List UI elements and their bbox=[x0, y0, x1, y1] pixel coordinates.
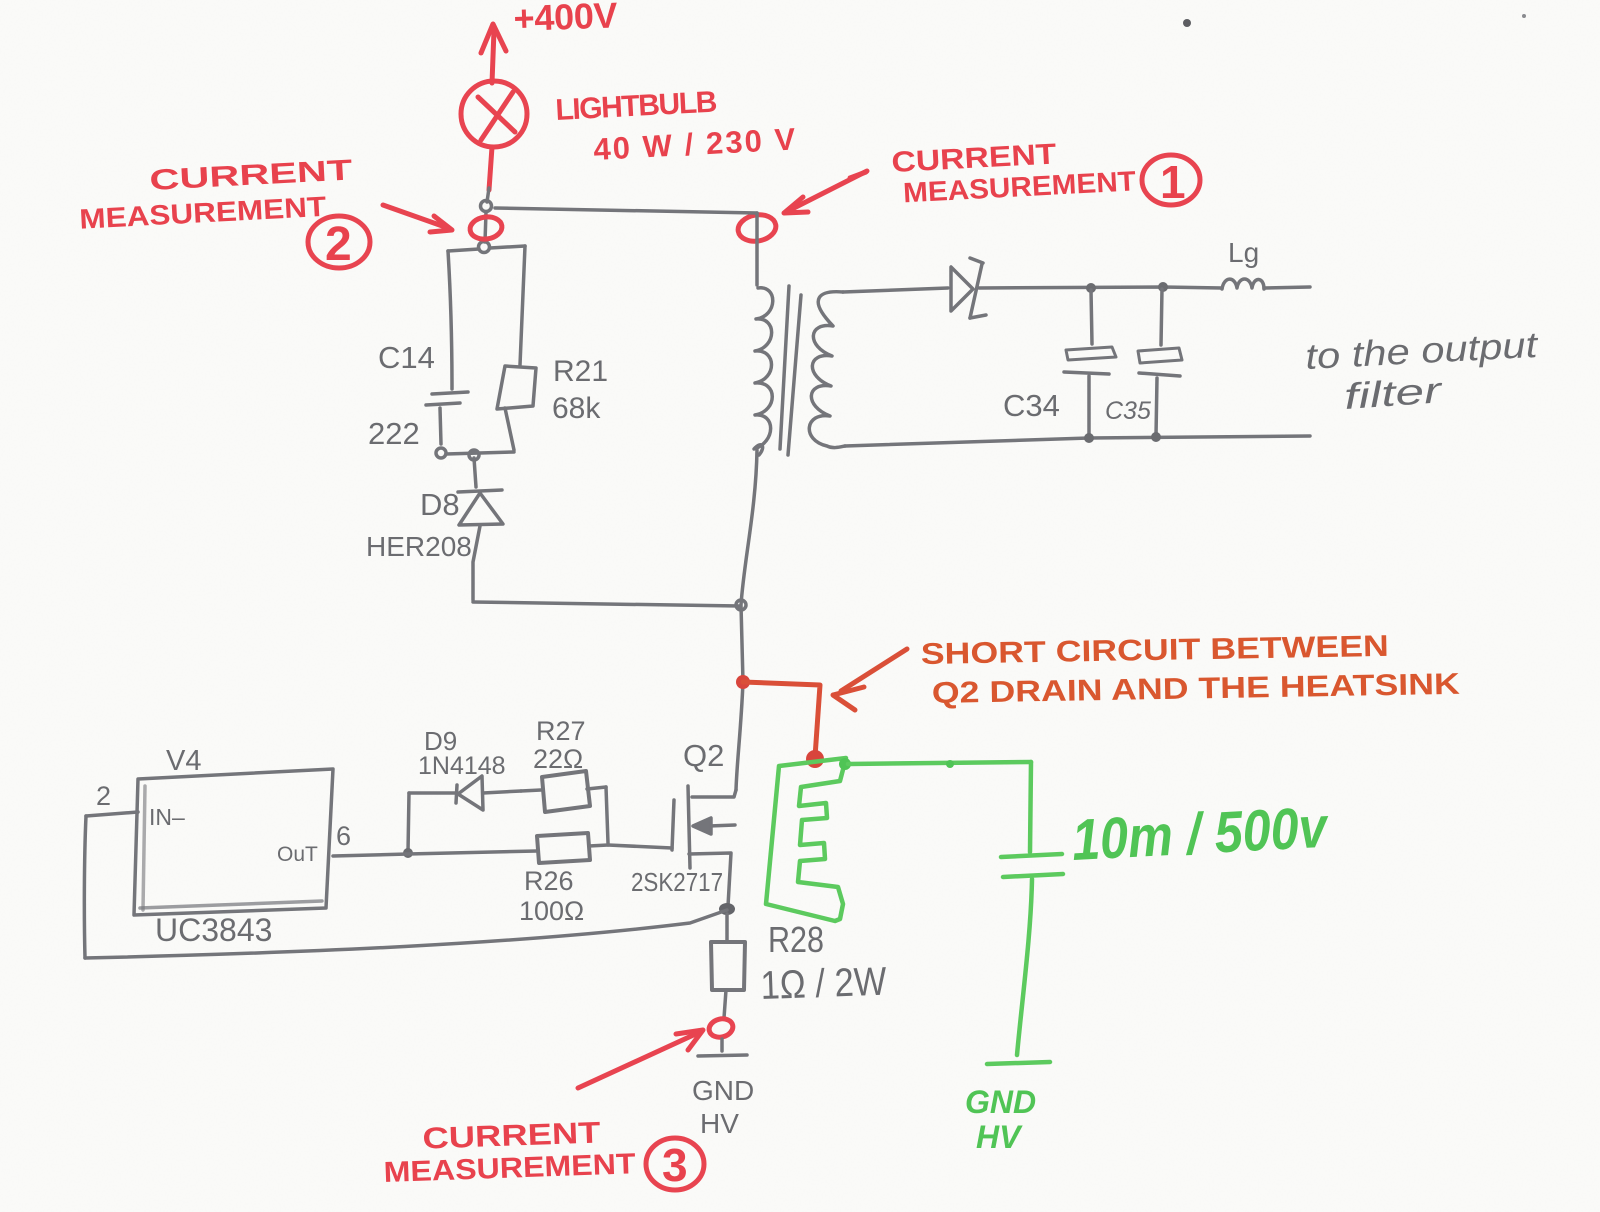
wire D8 to drain node bbox=[473, 602, 740, 606]
wire snubber bottom bbox=[446, 452, 514, 454]
svg-text:GND: GND bbox=[692, 1075, 754, 1106]
node snubber bottom-left circle bbox=[436, 448, 446, 458]
svg-text:6: 6 bbox=[336, 821, 351, 851]
node pencil circle upper bbox=[481, 201, 492, 212]
wire pin6 out bbox=[333, 851, 537, 856]
arrow to measurement point 2 bbox=[383, 205, 452, 232]
node pencil circle lower bbox=[479, 242, 490, 253]
wire bulb to node bbox=[487, 188, 489, 202]
svg-text:2: 2 bbox=[96, 781, 111, 811]
svg-text:1N4148: 1N4148 bbox=[418, 752, 506, 780]
resistor R21 bbox=[497, 246, 536, 450]
node C35 bottom junction bbox=[1151, 432, 1161, 442]
svg-text:D8: D8 bbox=[420, 487, 460, 522]
diode D8 bbox=[458, 458, 503, 600]
wire primary bottom to drain bbox=[736, 450, 757, 790]
svg-text:HV: HV bbox=[700, 1108, 739, 1139]
label to the output filter bbox=[1304, 324, 1540, 417]
node heatsink wire dot bbox=[839, 758, 851, 770]
wire short circuit link bbox=[743, 682, 820, 757]
node +400V supply arrow bbox=[481, 24, 506, 83]
wire bulb stem red bbox=[489, 147, 492, 190]
wire diode to L9 bbox=[979, 287, 1222, 288]
node source junction dot bbox=[719, 903, 735, 915]
node short-circuit dot on heatsink bbox=[806, 750, 824, 768]
capacitor 10m/500V bbox=[1001, 854, 1063, 877]
label current measurement 2 bbox=[77, 154, 355, 234]
svg-text:222: 222 bbox=[368, 416, 420, 451]
probe current measurement point 3 (red circle) bbox=[707, 1016, 735, 1039]
arrow to measurement point 3 bbox=[578, 1030, 703, 1088]
node drain junction circle bbox=[736, 600, 746, 610]
wire down to capacitor bbox=[1030, 762, 1031, 852]
svg-text:Lg: Lg bbox=[1228, 237, 1259, 268]
lamp lightbulb symbol bbox=[461, 81, 527, 147]
diode output rectifier bbox=[951, 258, 986, 318]
capacitor C14 bbox=[426, 251, 468, 444]
resistor R26 bbox=[537, 833, 590, 863]
wire feedback bottom bbox=[85, 910, 727, 958]
wire capacitor to ground bbox=[1017, 879, 1032, 1055]
wire segment between circles bbox=[485, 212, 486, 242]
svg-text:C35: C35 bbox=[1105, 397, 1151, 425]
ground green GND HV bbox=[987, 1062, 1050, 1064]
speck mark top right bbox=[1183, 19, 1191, 27]
svg-text:C14: C14 bbox=[378, 340, 435, 375]
probe current measurement point 1 (red ellipse) bbox=[736, 212, 778, 244]
node green wire dot bbox=[946, 760, 954, 768]
svg-text:2SK2717: 2SK2717 bbox=[631, 867, 723, 897]
node short-circuit dot on drain bbox=[736, 675, 750, 689]
node pin6 junction dot bbox=[403, 848, 413, 858]
ground GND HV bbox=[698, 1055, 747, 1056]
badge circled 1 bbox=[1142, 155, 1200, 208]
transformer primary winding bbox=[754, 288, 773, 455]
inductor L9 bbox=[1222, 279, 1264, 289]
wire left down bbox=[84, 816, 86, 958]
resistor R27 bbox=[521, 771, 606, 812]
svg-text:IN–: IN– bbox=[149, 804, 185, 830]
resistor R28 bbox=[711, 914, 745, 1018]
svg-text:HER208: HER208 bbox=[366, 531, 472, 562]
transistor Q2 mosfet bbox=[672, 786, 736, 906]
svg-text:R26: R26 bbox=[524, 866, 574, 896]
arrow to measurement point 1 bbox=[784, 171, 867, 213]
svg-text:C34: C34 bbox=[1003, 388, 1060, 423]
svg-text:3: 3 bbox=[662, 1139, 688, 1191]
wire gate bbox=[608, 845, 672, 848]
svg-text:GND: GND bbox=[965, 1084, 1036, 1120]
transformer core bbox=[780, 286, 801, 455]
svg-text:100Ω: 100Ω bbox=[519, 896, 584, 926]
svg-text:2: 2 bbox=[325, 218, 352, 271]
svg-text:1Ω / 2W: 1Ω / 2W bbox=[760, 960, 888, 1008]
badge circled 2 bbox=[308, 216, 370, 271]
wire L9 to right bbox=[1264, 287, 1310, 288]
wire secondary bottom bbox=[845, 436, 1310, 446]
wire secondary top bbox=[843, 288, 948, 292]
svg-text:Q2: Q2 bbox=[683, 738, 724, 773]
wire D9 branch down bbox=[408, 793, 409, 852]
diode D9 bbox=[409, 776, 521, 810]
svg-text:R21: R21 bbox=[553, 355, 608, 388]
svg-text:HV: HV bbox=[976, 1119, 1023, 1155]
arrow short circuit annotation bbox=[833, 649, 907, 710]
badge circled 3 bbox=[646, 1138, 704, 1191]
node C35 top junction bbox=[1158, 282, 1168, 292]
svg-text:1: 1 bbox=[1160, 156, 1186, 208]
wire heatsink to capacitor bbox=[848, 762, 1031, 764]
wire down to primary bbox=[755, 213, 759, 285]
svg-text:UC3843: UC3843 bbox=[155, 912, 272, 948]
svg-text:+400V: +400V bbox=[513, 0, 618, 39]
wire pin2 left bbox=[86, 812, 138, 816]
probe current measurement point 2 (red ellipse) bbox=[469, 215, 504, 241]
speck mark small bbox=[1522, 14, 1526, 18]
svg-text:10m / 500v: 10m / 500v bbox=[1070, 795, 1330, 873]
wire snubber top bbox=[448, 246, 525, 251]
svg-text:R28: R28 bbox=[768, 919, 824, 960]
capacitor C35 bbox=[1138, 289, 1182, 436]
label current measurement 1 bbox=[891, 134, 1137, 209]
svg-text:68k: 68k bbox=[552, 392, 601, 425]
svg-text:OuT: OuT bbox=[277, 843, 318, 866]
capacitor C34 bbox=[1064, 290, 1116, 436]
transformer secondary winding bbox=[809, 292, 845, 448]
node C34 bottom junction bbox=[1084, 433, 1094, 443]
wire top horizontal to transformer bbox=[495, 208, 757, 213]
label current measurement 3 bbox=[382, 1115, 636, 1189]
svg-text:R27: R27 bbox=[536, 716, 586, 746]
node D8 top junction dot bbox=[469, 450, 479, 460]
wire gate network right link bbox=[589, 787, 608, 846]
svg-text:filter: filter bbox=[1343, 369, 1445, 417]
ic U1 UC3843 box bbox=[134, 769, 333, 915]
node C34 top junction bbox=[1086, 283, 1096, 293]
wire to ground bbox=[720, 1039, 724, 1051]
heatsink bbox=[766, 758, 846, 921]
svg-text:V4: V4 bbox=[166, 745, 201, 777]
svg-text:22Ω: 22Ω bbox=[533, 744, 583, 774]
